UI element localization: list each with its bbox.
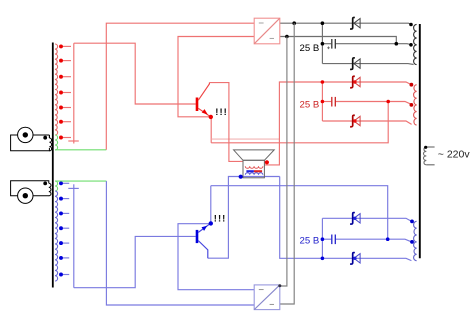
capacitor C1 with plus mark	[331, 39, 333, 49]
label 25 B (red supply)	[300, 99, 320, 110]
wire: blue capacitor row	[322, 238, 331, 240]
capacitor C3 (blue supply)	[331, 235, 333, 245]
left transformer red winding (top secondary)	[55, 44, 58, 135]
wire: black lower diode row	[322, 63, 413, 66]
node: speaker blue terminal dot	[239, 175, 243, 179]
node dots red supply	[321, 80, 325, 84]
wire: red supply mid line to center tap	[211, 102, 388, 143]
wire: blue emitter to bridge2 AC input 1	[178, 224, 254, 290]
node dots blue supply	[321, 237, 325, 241]
right transformer blue winding upper	[414, 221, 417, 242]
right transformer red winding upper	[414, 85, 417, 105]
wire: blue tap rail to base path	[74, 236, 196, 287]
node: blue emitter junction dot	[209, 221, 213, 225]
right transformer 220v primary winding	[423, 147, 426, 165]
svg-text:!!!: !!!	[215, 107, 228, 118]
wire: left winding to bridge AC input 1	[106, 23, 254, 150]
right transformer black winding lower	[414, 45, 417, 65]
wire: black capacitor row	[322, 43, 331, 45]
wire: red lower diode row to winding bottom	[322, 121, 411, 124]
faint red parallel wire	[211, 138, 279, 140]
diode VD3 (red upper)	[350, 76, 355, 88]
svg-text:!!!: !!!	[214, 214, 227, 225]
wire: left winding to bridge2 AC input 2	[106, 181, 254, 305]
wire: gray rail A	[280, 37, 287, 287]
wire: black node column	[321, 23, 323, 63]
right transformer blue winding lower	[414, 242, 417, 261]
wire: red supply rail to speaker right	[264, 82, 411, 165]
bridge rectifier BR2 (bottom)	[254, 285, 280, 310]
blue winding taps with junction dots	[61, 182, 69, 184]
node: red emitter junction dot	[209, 115, 213, 119]
wire: blue supply mid line to center tap	[211, 186, 388, 240]
motor M2 (bottom pickup head)	[11, 181, 49, 196]
wire: blue node column	[321, 218, 323, 258]
wire: gray rail B	[280, 23, 294, 304]
wire green: red winding bottom to node	[55, 149, 106, 151]
left transformer blue winding (bottom secondary)	[55, 191, 58, 281]
label ~ 220v	[438, 149, 471, 161]
wire: red emitter to bridge AC input 2	[178, 37, 254, 117]
wire: red collector to speaker left	[209, 83, 243, 162]
diode VD5 (blue upper)	[350, 213, 355, 225]
diode VD6 (blue lower)	[350, 253, 355, 265]
right transformer black winding upper	[414, 24, 417, 44]
bridge rectifier BR1 (top)	[254, 18, 280, 44]
wire: red capacitor row	[322, 101, 331, 103]
transistor Q2 (blue channel)	[196, 230, 199, 243]
left transformer core	[52, 43, 54, 288]
right transformer core	[419, 24, 421, 258]
svg-text:25 B: 25 B	[300, 235, 320, 246]
node dots black supply	[292, 21, 296, 25]
diode VD4 (red lower)	[350, 115, 355, 127]
label 25 B (black supply)	[300, 43, 320, 54]
wire: blue emitter up to supply mid line	[210, 186, 212, 223]
wire: black positive rail	[280, 23, 412, 24]
wire: black bridge minus to center tap	[280, 37, 397, 44]
diode VD2 (black lower)	[350, 58, 355, 70]
diode VD1 (black upper)	[350, 17, 355, 29]
transistor Q1 (red channel)	[196, 98, 199, 112]
svg-text:~ 220v: ~ 220v	[438, 149, 471, 161]
wire: blue collector to speaker left	[208, 177, 280, 259]
capacitor C2 (red supply)	[331, 97, 333, 107]
wire: red emitter down to supply mid line	[210, 118, 212, 143]
label 25 B (blue supply)	[300, 235, 320, 246]
svg-text:25 B: 25 B	[300, 99, 320, 110]
label !!! (blue channel warning)	[214, 214, 227, 225]
wire green: blue winding top to node	[55, 180, 106, 182]
label !!! (red channel warning)	[215, 107, 228, 118]
wire: red tap rail to base resistor path	[74, 43, 196, 104]
svg-text:25 B: 25 B	[300, 43, 320, 54]
red winding taps with junction dots	[61, 45, 71, 47]
left transformer green winding section (bottom)	[55, 181, 58, 191]
blue center-tap cross terminal	[73, 184, 75, 287]
wire: red rail drop at node column	[321, 82, 323, 121]
left transformer green winding section (top)	[55, 135, 58, 150]
motor M1 (top pickup head)	[11, 135, 50, 151]
red center-tap cross terminal	[73, 43, 75, 143]
node: speaker red terminal dot	[265, 160, 269, 164]
right transformer red winding lower	[414, 105, 417, 125]
wire: blue rail up from speaker wire	[280, 177, 412, 261]
wire: blue upper diode row	[322, 218, 411, 221]
speaker with matching transformer	[234, 150, 275, 160]
